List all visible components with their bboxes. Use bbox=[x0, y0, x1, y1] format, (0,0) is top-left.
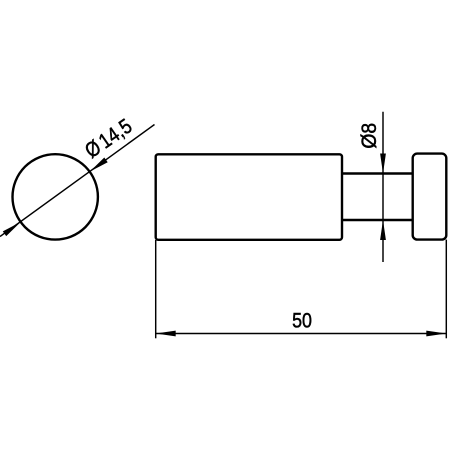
arrowhead pointing left at length dimension bbox=[156, 331, 176, 337]
left extension line for length dimension bbox=[155, 240, 157, 338]
diameter dimension line through circle bbox=[0, 125, 155, 237]
body cylinder rectangle side view bbox=[156, 154, 342, 240]
circle front view of hook knob bbox=[13, 154, 98, 239]
right extension line for length dimension bbox=[445, 240, 447, 339]
neck top line bbox=[342, 172, 413, 174]
arrowhead pointing right at length dimension bbox=[426, 331, 446, 337]
svg-text:50: 50 bbox=[292, 309, 312, 333]
cap rectangle side view bbox=[413, 154, 447, 240]
arrowhead at top-right of circle bbox=[90, 158, 108, 172]
arrowhead pointing up to neck bottom bbox=[380, 220, 386, 240]
vertical dimension line for neck diameter bbox=[382, 112, 384, 262]
arrowhead at bottom-left of circle bbox=[3, 222, 21, 236]
arrowhead pointing down to neck top bbox=[380, 154, 386, 174]
horizontal dimension line for length 50 bbox=[156, 333, 447, 335]
neck bottom line bbox=[342, 219, 413, 221]
svg-text:Ø8: Ø8 bbox=[358, 123, 381, 149]
